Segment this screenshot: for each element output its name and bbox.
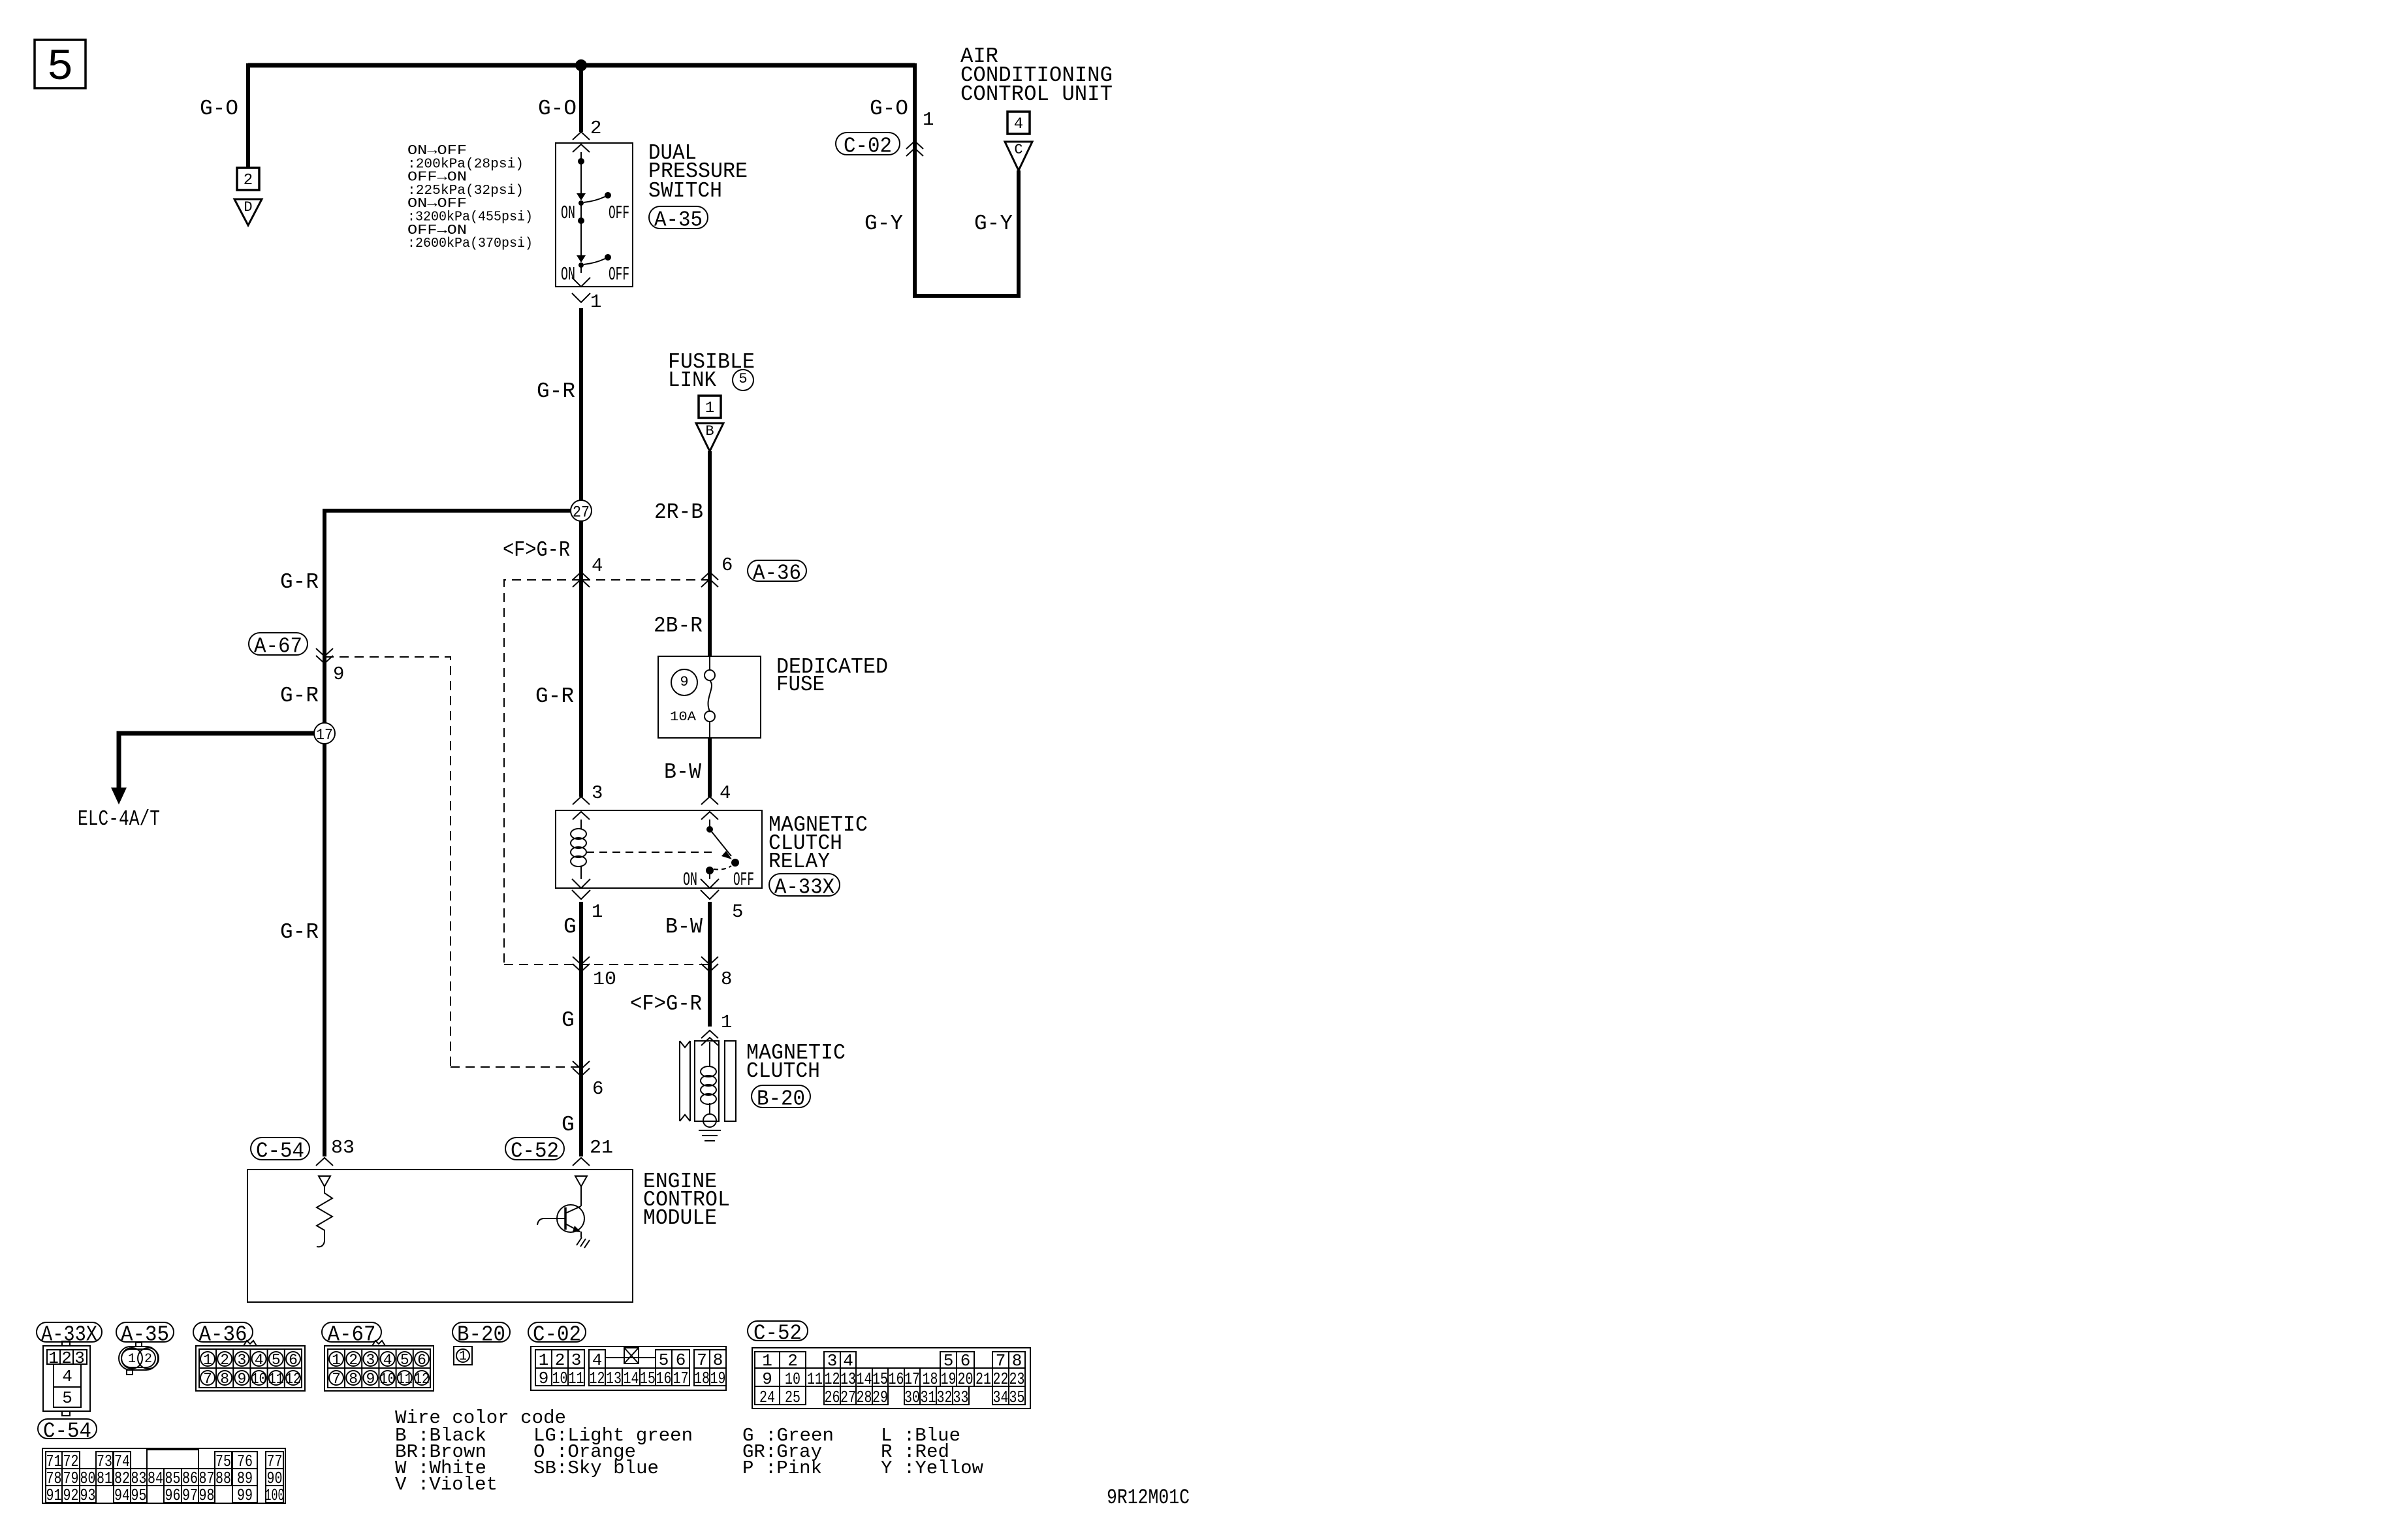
svg-text:1: 1 [539,1350,549,1370]
svg-text:G-Y: G-Y [974,212,1013,236]
svg-text:OFF: OFF [733,869,754,891]
svg-text:18: 18 [694,1369,710,1388]
svg-text:G-R: G-R [537,379,575,404]
dashed link A-67 loop [325,657,710,1067]
svg-text:G-R: G-R [535,684,574,709]
svg-text:D: D [244,199,252,215]
dedicated fuse box [658,656,761,738]
svg-text:5: 5 [47,42,74,93]
svg-text:C-52: C-52 [511,1140,559,1164]
relay switch contact top [709,820,710,828]
svg-text:3: 3 [74,1348,85,1368]
double chevron at C-02 crossing [906,141,923,156]
svg-text:A-35: A-35 [121,1323,169,1347]
svg-text:1: 1 [203,1352,212,1369]
moving arrow contact 2 [577,255,586,263]
svg-text:<F>G-R: <F>G-R [630,992,702,1016]
svg-text:OFF: OFF [609,202,629,224]
wire B-W fuse to relay pin 4 [708,738,712,797]
svg-text:2: 2 [555,1350,565,1370]
svg-text::2600kPa(370psi): :2600kPa(370psi) [407,236,533,251]
sheet number 5 box [35,40,86,88]
svg-text:G-R: G-R [280,920,319,944]
svg-text:9: 9 [333,663,344,685]
svg-text:2: 2 [590,118,601,139]
svg-text:9R12M01C: 9R12M01C [1107,1486,1190,1510]
svg-text:29: 29 [872,1388,888,1407]
svg-text:5: 5 [62,1388,72,1408]
svg-text:16: 16 [889,1369,904,1389]
svg-text:G-O: G-O [538,97,577,121]
svg-text:2: 2 [144,1352,152,1367]
dashed link A-36: pin4 loop [504,580,710,964]
svg-text:V :Violet: V :Violet [395,1474,498,1495]
svg-text:5: 5 [732,901,743,923]
svg-text:4: 4 [592,1350,603,1370]
svg-text:24: 24 [759,1388,775,1407]
svg-text:84: 84 [148,1469,163,1488]
svg-text:C: C [1014,142,1022,158]
svg-text:7: 7 [332,1371,341,1388]
svg-text:G: G [562,1113,575,1137]
svg-text:G-R: G-R [280,570,319,594]
svg-text:91: 91 [46,1486,62,1505]
junction circle 27 [325,511,571,1156]
wire G-O center drop to dual pressure switch pin 2 [579,65,583,132]
svg-text:OFF: OFF [609,264,629,285]
svg-text:C-02: C-02 [533,1323,581,1347]
svg-text:1: 1 [592,901,603,923]
fuse element [708,656,712,738]
svg-text:7: 7 [697,1350,707,1370]
svg-text:3: 3 [571,1350,582,1370]
svg-text:2: 2 [220,1352,229,1369]
svg-text:10: 10 [552,1369,568,1388]
svg-text:MODULE: MODULE [643,1206,717,1230]
svg-text:93: 93 [80,1486,96,1505]
svg-text:83: 83 [331,1137,355,1158]
connector table A-67 (12 pin) [322,1322,381,1342]
svg-text:2: 2 [244,172,253,189]
svg-text:10: 10 [380,1371,396,1388]
svg-text:8: 8 [713,1350,723,1370]
svg-text:5: 5 [272,1352,281,1369]
svg-text:A-36: A-36 [753,562,801,586]
svg-text:C-54: C-54 [43,1420,91,1444]
svg-text:2: 2 [349,1352,358,1369]
magnetic clutch relay box A-33X [556,810,762,888]
relay bottom chevrons [572,879,590,888]
junction circle 17 [119,733,315,789]
svg-text:A-33X: A-33X [774,876,834,900]
svg-text:94: 94 [114,1486,130,1505]
chevron inside switch top [573,144,590,152]
clutch coil [701,1066,716,1077]
chevron at switch bottom [572,278,590,287]
connector table A-36 (12 pin) [193,1322,253,1342]
double chevron A-67 crossing pin 9 [316,648,333,663]
switch blade 1 to OFF dot [584,197,605,202]
terminal box 1 (fusible link) [699,396,721,418]
svg-text:1: 1 [721,1012,732,1033]
svg-text:G-Y: G-Y [864,212,903,236]
svg-text:G-O: G-O [870,97,908,121]
svg-text:4: 4 [62,1367,72,1386]
svg-text:16: 16 [656,1369,672,1388]
double chevron pin 4 crossing [573,572,590,587]
svg-text:1: 1 [590,291,601,313]
svg-text:95: 95 [131,1486,147,1505]
svg-text:10: 10 [593,968,616,990]
svg-text:9: 9 [237,1371,246,1388]
svg-text:1: 1 [128,1352,136,1367]
mid contact dot [578,217,584,224]
svg-text:3: 3 [366,1352,375,1369]
svg-text:9: 9 [680,674,688,690]
svg-text:7: 7 [203,1371,212,1388]
svg-text:9: 9 [539,1369,549,1388]
svg-text:12: 12 [414,1371,430,1388]
svg-text:11: 11 [807,1369,823,1389]
chevrons pin 10 crossing [573,957,590,972]
circled fuse number 9 [671,669,697,695]
svg-text:B: B [705,423,714,439]
svg-text:10A: 10A [670,710,696,725]
svg-text:B-W: B-W [664,760,701,784]
svg-text:P :Pink: P :Pink [742,1458,822,1479]
svg-text:Y :Yellow: Y :Yellow [881,1458,984,1479]
connector ref A-33X [769,874,840,896]
svg-text:15: 15 [640,1369,656,1388]
wire G-O top horizontal bus [248,63,915,68]
pin 2 chevron (dual pressure switch) [573,132,590,140]
ground symbol [699,1130,721,1141]
connector ref C-02 [836,133,900,155]
svg-text:33: 33 [953,1388,969,1407]
chevrons pin 8 crossing [701,957,718,972]
svg-text:11: 11 [569,1369,584,1388]
wire G relay pin1 to ECM pin 21 [579,902,583,1156]
clutch body boxes [695,1041,719,1121]
terminal box 2 (joint connector) [237,168,259,190]
svg-text:6: 6 [676,1350,686,1370]
svg-text:4: 4 [1014,116,1023,133]
svg-text:12: 12 [590,1369,605,1388]
wire 2R-B fusible link down to dedicated fuse [708,451,712,656]
dual pressure switch box A-35 [556,143,633,287]
svg-text:1: 1 [705,400,714,417]
connector table C-52 [748,1321,808,1341]
svg-text:1: 1 [459,1349,467,1364]
connector ref A-36 (inline) [748,560,806,581]
svg-text:100: 100 [265,1486,285,1505]
ON contact [706,867,714,874]
wire G-R from pressure switch pin1 down to relay pin 3 [579,308,583,797]
svg-text:98: 98 [199,1486,215,1505]
svg-text:1: 1 [332,1352,341,1369]
svg-text:5: 5 [659,1350,669,1370]
svg-text:99: 99 [237,1486,253,1505]
svg-text:G-R: G-R [280,684,319,708]
svg-text:17: 17 [673,1369,689,1388]
svg-text:C-54: C-54 [256,1140,304,1164]
connector ref C-52 [505,1138,564,1160]
svg-text:SWITCH: SWITCH [648,179,722,203]
svg-text:88: 88 [215,1469,231,1488]
svg-text:8: 8 [349,1371,358,1388]
C-02 center notch + keying [605,1350,656,1358]
relay coil [580,820,582,829]
svg-text:25: 25 [785,1388,800,1407]
svg-text:28: 28 [857,1388,872,1407]
thermal protector circle [703,1114,716,1127]
svg-text:A-67: A-67 [254,635,302,659]
svg-text:27: 27 [573,504,590,522]
svg-text:B-20: B-20 [757,1087,805,1111]
wire G-O right drop to C-02 and G-Y loop to A/C unit [915,63,1019,296]
internal transistor (pin 21) [575,1176,587,1187]
svg-text:CLUTCH: CLUTCH [746,1059,820,1083]
relay blade [710,829,731,856]
triangle terminal C [1005,142,1032,170]
svg-text:1: 1 [923,109,934,131]
svg-text:RELAY: RELAY [768,850,830,874]
svg-text:5: 5 [400,1352,409,1369]
svg-text:<F>G-R: <F>G-R [503,538,570,562]
svg-text:13: 13 [606,1369,622,1388]
connector table C-54 [38,1419,97,1439]
moving arrow contact 1 [577,193,586,200]
svg-text:30: 30 [904,1388,920,1407]
magnetic clutch B-20 [709,1042,710,1066]
connector ref B-20 [752,1085,810,1108]
wire B-W relay pin5 to magnetic clutch [708,902,712,1027]
svg-text:2R-B: 2R-B [654,500,703,524]
svg-text:4: 4 [255,1352,264,1369]
svg-text:4: 4 [383,1352,392,1369]
svg-text:SB:Sky blue: SB:Sky blue [533,1458,659,1479]
svg-text:11: 11 [397,1371,413,1388]
svg-text:3: 3 [237,1352,246,1369]
connector table B-20 [452,1322,510,1342]
svg-text:81: 81 [97,1469,112,1488]
svg-text:3: 3 [592,782,603,804]
svg-text:32: 32 [937,1388,953,1407]
svg-text:9: 9 [366,1371,375,1388]
belt symbol [680,1041,690,1121]
svg-text:FUSE: FUSE [776,673,825,697]
svg-text:B-W: B-W [665,915,703,939]
connector ref A-35 [649,206,708,229]
svg-text:12: 12 [285,1371,301,1388]
internal resistor (pin 83) [319,1176,330,1187]
junction dot on top bus [575,59,587,71]
pin 3 chevrons [573,797,590,805]
triangle terminal B [696,423,723,451]
svg-text:6: 6 [417,1352,426,1369]
svg-text:31: 31 [921,1388,936,1407]
wire G-O left drop to terminal D [246,63,250,168]
svg-text:C-52: C-52 [753,1322,802,1346]
svg-text:11: 11 [268,1371,284,1388]
svg-text:35: 35 [1009,1388,1025,1407]
svg-text:17: 17 [316,727,333,744]
svg-text:10: 10 [251,1371,267,1388]
svg-text:ELC-4A/T: ELC-4A/T [78,807,160,831]
chevrons pin 6 crossing [573,1061,590,1076]
pin 4 chevrons [701,797,718,805]
connector table A-33X [37,1322,102,1342]
svg-text:27: 27 [840,1388,856,1407]
svg-text:A-67: A-67 [328,1323,376,1347]
svg-text:4: 4 [720,782,731,804]
svg-text:96: 96 [165,1486,181,1505]
svg-text:G: G [562,1008,575,1032]
svg-text:4: 4 [592,555,603,577]
switch blade 2 to OFF dot [584,259,605,264]
connector ref A-67 (inline) [249,633,308,655]
svg-text:B-20: B-20 [457,1323,505,1347]
svg-text:14: 14 [624,1369,639,1388]
terminal box 4 (A/C unit) [1007,112,1030,134]
connector table A-35 [116,1322,174,1342]
engine control module box [247,1170,633,1302]
svg-text:A-36: A-36 [199,1323,247,1347]
svg-text:LINK: LINK [668,368,716,392]
svg-text:26: 26 [825,1388,840,1407]
contact dot upper [578,158,584,165]
switch internal lead [580,152,582,273]
svg-text:C-02: C-02 [844,135,892,159]
svg-text:21: 21 [975,1369,991,1389]
svg-text:8: 8 [220,1371,229,1388]
double chevron A-36 crossing pin 6 [701,572,718,587]
svg-text:ON: ON [561,202,575,224]
svg-text:92: 92 [63,1486,79,1505]
chevrons magnetic clutch pin 1 [701,1030,718,1045]
triangle terminal D [234,199,262,225]
svg-text:19: 19 [710,1369,726,1388]
svg-text:6: 6 [592,1078,603,1100]
svg-text:2: 2 [61,1348,72,1368]
connector ref C-54 [251,1138,309,1160]
circled 5 [733,370,753,390]
svg-text:8: 8 [721,968,732,990]
svg-text:34: 34 [993,1388,1009,1407]
svg-text:6: 6 [289,1352,298,1369]
dashed actuation line [586,852,717,853]
svg-text:ON: ON [683,869,697,891]
svg-text:ON: ON [561,264,575,285]
svg-text:CONTROL UNIT: CONTROL UNIT [960,82,1113,106]
connector table C-02 [528,1322,586,1342]
svg-text:A-35: A-35 [654,208,703,232]
svg-text:1: 1 [48,1348,59,1368]
svg-text:G: G [563,915,577,939]
svg-text:5: 5 [738,371,747,387]
svg-text:21: 21 [590,1137,613,1158]
svg-text:2B-R: 2B-R [654,614,703,638]
svg-text:G-O: G-O [200,97,238,121]
arrow to ELC-4A/T [111,788,127,805]
svg-text:97: 97 [182,1486,198,1505]
svg-text:6: 6 [721,554,733,576]
